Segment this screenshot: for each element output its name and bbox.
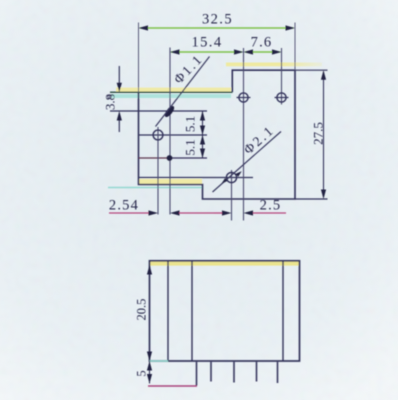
dim 5.1 arrows middle — [200, 126, 205, 145]
dim 2.54 tail left — [109, 212, 150, 214]
svg-text:3.8: 3.8 — [103, 94, 118, 110]
svg-text:2.54: 2.54 — [109, 198, 139, 214]
yellow scan band above top-left edge — [116, 88, 231, 92]
part outline top view — [139, 70, 296, 199]
hole H5 phi2.1 — [226, 172, 236, 182]
dim 27.5 arrow bottom — [321, 190, 326, 200]
hole H4 — [275, 93, 289, 102]
dim 5 arrow top — [147, 361, 152, 371]
dim 32.5 ext right — [294, 23, 296, 71]
pin P4 — [256, 362, 258, 382]
svg-text:20.5: 20.5 — [135, 299, 149, 321]
leader phi1.1 — [156, 57, 210, 127]
dim 15.4 arrow left — [170, 49, 180, 54]
dim 20.5 arrow bottom — [147, 352, 152, 362]
dim 3.8 upper arrow — [117, 66, 122, 92]
top-right edge extension — [295, 69, 328, 71]
dim 5.1 arrow top — [200, 111, 205, 121]
dim 20.5 arrow top — [147, 265, 152, 275]
dim 2.5 arrow right — [244, 210, 287, 215]
dim 32.5 line — [140, 27, 294, 29]
dim 32.5 arrow right — [286, 25, 296, 30]
dim 5 line — [149, 361, 151, 384]
hole H3 — [237, 93, 251, 102]
dim 3.8 lower arrow — [117, 111, 122, 132]
dim 27.5 arrow top — [321, 70, 326, 80]
dim 15.4 arrow right — [234, 49, 244, 54]
pin row C — [139, 157, 171, 159]
dim 2.54 arrow left — [149, 210, 159, 215]
svg-text:27.5: 27.5 — [311, 122, 326, 145]
hole H2 phi1.1 — [153, 130, 163, 140]
pin P2 — [210, 362, 212, 382]
hole H3 column vertical — [243, 48, 245, 221]
cyan scan segment on body bottom edge — [150, 360, 169, 362]
small scan speck left margin — [108, 95, 112, 99]
body interior line 2 — [191, 261, 193, 361]
solder dot C — [167, 155, 173, 161]
svg-text:5.1: 5.1 — [183, 116, 198, 132]
pin row B — [139, 134, 208, 136]
dim 32.5 ext left — [138, 23, 140, 93]
body outline side view — [150, 261, 300, 361]
dim 7.6 arrow left — [244, 49, 254, 54]
body interior line 3 — [282, 261, 284, 361]
bottom-right edge extension — [295, 198, 328, 200]
pin row C right segment — [170, 157, 207, 159]
svg-text:32.5: 32.5 — [202, 12, 233, 28]
dim 32.5 arrow left — [139, 25, 149, 30]
dim 2.54 arrow right — [170, 210, 180, 215]
hole H4 column vertical — [281, 48, 283, 105]
dot column vertical — [169, 48, 171, 215]
leader phi2.1 — [213, 132, 282, 193]
solder dot A — [163, 105, 176, 119]
svg-text:7.6: 7.6 — [251, 35, 273, 51]
pin P1 — [196, 362, 198, 386]
dim 15.4 line — [171, 51, 242, 53]
dim 2.5 arrow left — [214, 210, 232, 215]
leader phi2.1 arrowhead upper — [236, 171, 242, 177]
hole H5 column vertical — [231, 170, 233, 221]
leader phi2.1 arrowhead lower — [221, 178, 227, 184]
dim 27.5 line — [323, 72, 325, 198]
yellow scan band on body top edge — [150, 262, 299, 266]
cyan scan line below bottom-left edge — [108, 187, 202, 189]
yellow scan band above top-right edge — [226, 63, 322, 67]
pin row A — [110, 110, 207, 112]
svg-text:5.1: 5.1 — [183, 139, 198, 155]
hole column vertical — [157, 127, 159, 215]
dim 2.54 tail right magenta — [179, 212, 214, 214]
dim 7.6 line — [245, 51, 280, 53]
dim 5.1 arrow bottom — [200, 149, 205, 159]
dim 5.1 line — [202, 111, 204, 158]
svg-text:15.4: 15.4 — [192, 35, 223, 51]
body interior line 1 — [167, 261, 169, 361]
dim 7.6 arrow right — [272, 49, 282, 54]
dim 5 arrow bottom — [147, 374, 152, 384]
pin row D — [139, 177, 254, 179]
svg-text:5: 5 — [135, 370, 149, 376]
svg-text:2.5: 2.5 — [260, 198, 282, 214]
top-left edge extension to margin — [110, 91, 232, 93]
pin P3 — [233, 362, 235, 383]
dim 5 magenta extension at pin tips — [148, 385, 197, 387]
cyan scan band below top-left edge — [111, 94, 231, 98]
yellow scan band above bottom-left edge — [138, 179, 202, 184]
pin P5 — [277, 362, 279, 383]
